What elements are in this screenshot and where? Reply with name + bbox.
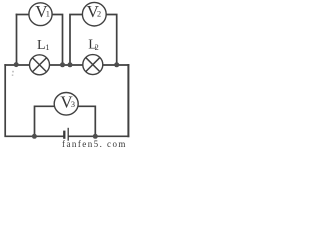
- node junction dot main line / V1 left: [14, 62, 19, 67]
- wire between lamps L1-L2: [49, 64, 83, 66]
- svg-text:3: 3: [71, 100, 75, 109]
- node junction dot V1 right drop: [60, 62, 65, 67]
- battery cell: long thin plate: [67, 128, 69, 141]
- wire V2 left lead corner: [70, 15, 82, 65]
- wire V1 right terminal to corner and drop: [52, 15, 63, 65]
- node junction dot V2 right drop: [114, 62, 119, 67]
- stray speck marks: [12, 71, 14, 73]
- battery cell: short thick plate: [63, 131, 65, 139]
- svg-text:2: 2: [97, 10, 101, 19]
- voltmeter V3: [54, 92, 78, 115]
- svg-text:1: 1: [46, 9, 50, 18]
- svg-text:1: 1: [45, 43, 49, 52]
- node junction dot V2 left drop: [68, 62, 73, 67]
- wire V3 right lead: [78, 106, 96, 136]
- wire right outer loop down and along bottom to battery: [127, 65, 129, 136]
- lamp L2: [83, 55, 103, 75]
- svg-text:2: 2: [95, 43, 99, 52]
- wire V2 right terminal to corner and drop: [106, 15, 117, 65]
- wire top to V1 left terminal: [17, 14, 30, 16]
- voltmeter V1: [29, 2, 52, 26]
- node junction dot V3 left at bottom wire: [32, 134, 37, 139]
- wire V1 left lead: corner down to main line: [16, 15, 18, 65]
- wire main line right segment: [103, 64, 129, 66]
- wire left outer loop down and along bottom to battery: [5, 65, 63, 136]
- wire V3 left lead: [35, 106, 55, 136]
- lamp L1: [30, 55, 50, 75]
- svg-text:L: L: [37, 38, 46, 53]
- svg-text:fanfen5. com: fanfen5. com: [62, 139, 127, 148]
- voltmeter V2: [82, 2, 106, 26]
- wire main line left segment: [5, 64, 30, 66]
- label L1: [37, 38, 50, 53]
- node junction dot V3 right at bottom wire: [93, 134, 98, 139]
- label L2: [88, 38, 99, 53]
